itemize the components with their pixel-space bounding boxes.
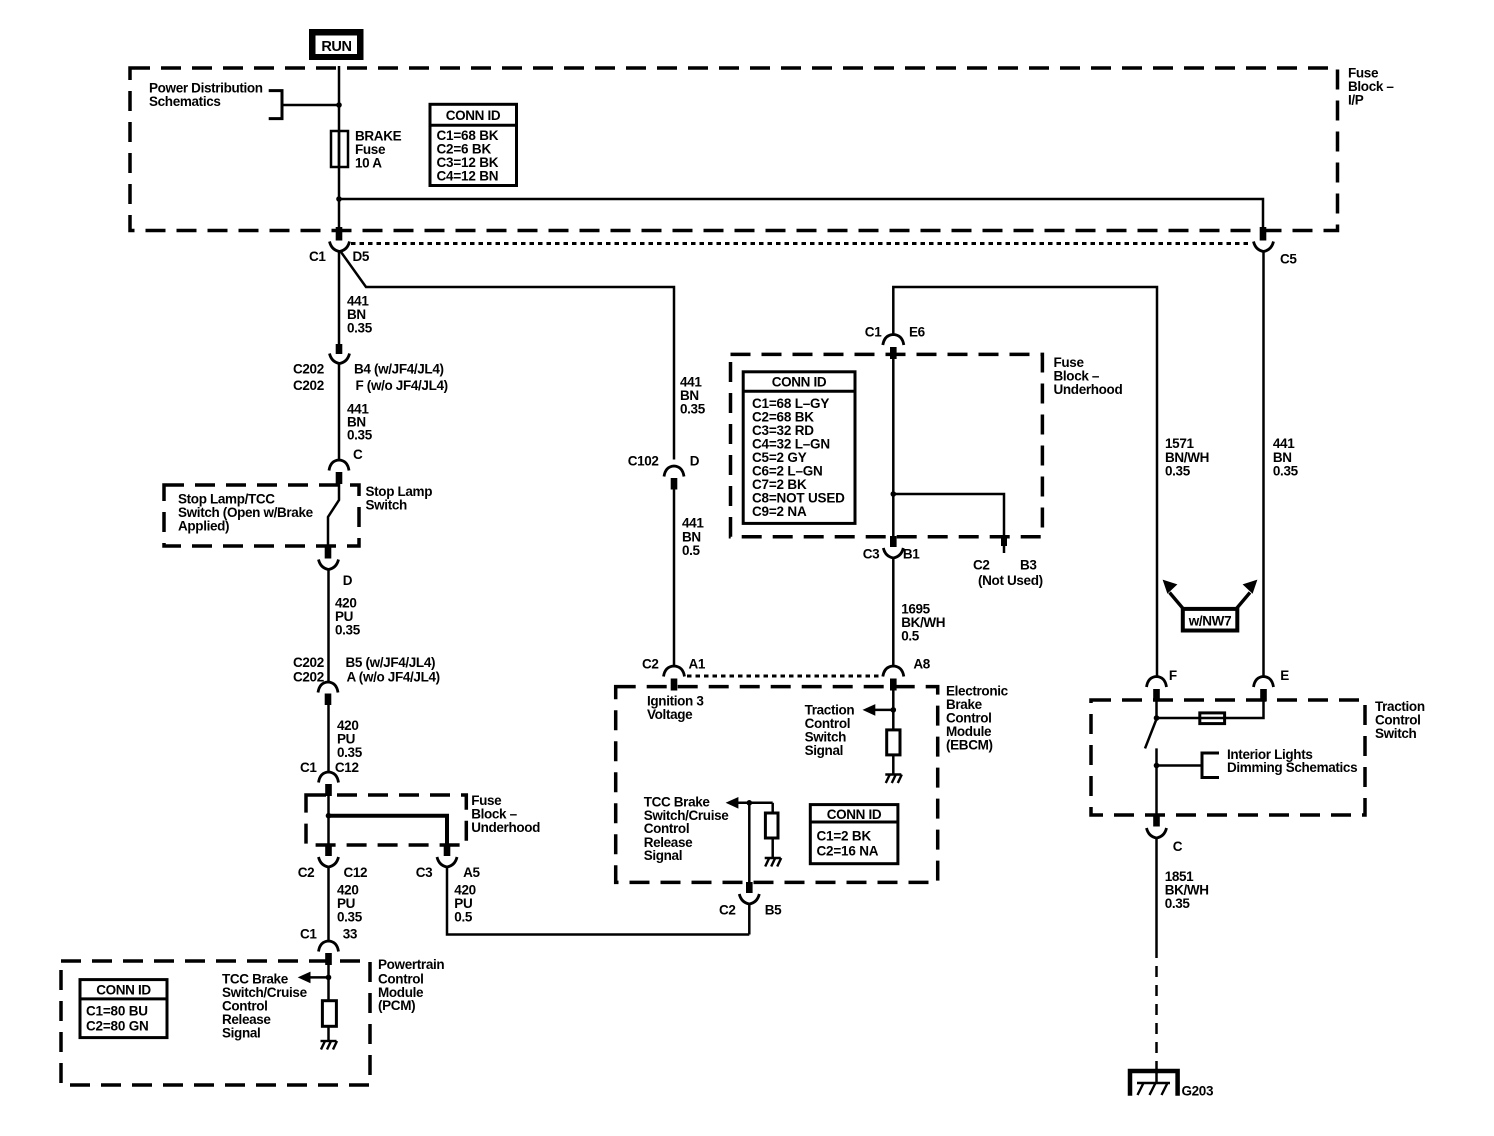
svg-text:Underhood: Underhood (471, 820, 540, 835)
svg-text:0.35: 0.35 (1273, 464, 1299, 479)
fuse BRAKE 10 A (331, 131, 348, 167)
svg-text:A8: A8 (913, 656, 930, 671)
connector C202 pin B5/A (293, 655, 440, 705)
connector C2 pin C12 (exit fuse block) (298, 845, 368, 880)
svg-text:0.35: 0.35 (1165, 464, 1191, 479)
label Power Distribution Schematics (149, 81, 263, 110)
svg-text:A (w/o JF4/JL4): A (w/o JF4/JL4) (347, 670, 440, 685)
wire: fuse output across top to right side (339, 199, 1263, 228)
svg-text:0.35: 0.35 (347, 321, 373, 336)
Fuse Block - Underhood (right) dashed box (731, 354, 1043, 536)
connector C1 pin A8 into EBCM (883, 656, 931, 690)
wire: D5 branch diagonal to middle column (341, 252, 674, 460)
Fuse Block - I/P dashed enclosure (130, 68, 1338, 231)
connector C102 pin D (628, 453, 700, 489)
wire: stub to C2/B3 not used (893, 494, 1004, 553)
wire 441 BN 0.35 (C202 to C) (338, 364, 341, 460)
node: junction at TCC arrow tap (747, 800, 753, 806)
connector D below stop lamp switch (319, 546, 353, 588)
svg-text:33: 33 (343, 927, 358, 942)
node: junction at interior lights tap (1154, 763, 1160, 769)
ground (EBCM TCC) (765, 858, 782, 867)
wire 441 BN 0.5 (C102 to C2/A1) (673, 490, 676, 667)
svg-text:C2: C2 (719, 903, 736, 918)
svg-text:G203: G203 (1182, 1084, 1214, 1099)
svg-text:C1: C1 (309, 249, 326, 264)
svg-text:C202: C202 (293, 655, 324, 670)
svg-text:C3: C3 (863, 547, 880, 562)
wire: bus inside left underhood fuse block (327, 784, 330, 846)
Traction Control Switch dashed box (1091, 700, 1365, 815)
label TCC Brake Switch/Cruise Control Release Signal (PCM) (222, 972, 308, 1041)
svg-text:Signal: Signal (222, 1026, 260, 1041)
svg-text:0.5: 0.5 (682, 543, 701, 558)
wire 1695 BK/WH 0.5 (B1 to A8) (892, 558, 895, 666)
arrow: w/NW7 applies to 1571 wire (1163, 580, 1183, 609)
svg-text:A5: A5 (463, 865, 480, 880)
svg-text:0.5: 0.5 (454, 910, 473, 925)
label 1851 BK/WH 0.35 (1165, 869, 1209, 911)
label Interior Lights Dimming Schematics (1227, 747, 1357, 775)
svg-text:I/P: I/P (1348, 93, 1364, 108)
svg-text:C202: C202 (293, 362, 324, 377)
connector row dotted line C1..C5 (351, 242, 1252, 245)
arrow: TCC brake switch signal inside EBCM (735, 802, 773, 805)
svg-text:Underhood: Underhood (1054, 382, 1123, 397)
node: junction to B3 stub (891, 491, 897, 497)
connector E into traction control switch (1254, 668, 1290, 702)
arrow: w/NW7 applies to 441 wire (1237, 580, 1258, 609)
w/NW7 option tag box (1181, 607, 1240, 633)
svg-text:0.35: 0.35 (347, 428, 373, 443)
wire: bracket to junction (282, 104, 339, 107)
svg-text:0.5: 0.5 (901, 629, 920, 644)
label Fuse Block - Underhood (1054, 355, 1123, 397)
wire: link F to E inside switch (1157, 702, 1264, 719)
svg-text:Switch: Switch (1375, 726, 1417, 741)
svg-text:C9=2 NA: C9=2 NA (752, 504, 807, 519)
svg-text:C: C (1173, 839, 1183, 854)
connector row dotted line A1..A8 (687, 675, 880, 678)
svg-text:C2: C2 (642, 656, 659, 671)
wire 420 PU 0.35 (D to C202) (327, 570, 330, 682)
wire: E6 drop inside fuse block (892, 359, 895, 537)
svg-text:Switch: Switch (366, 497, 408, 512)
bracket: Power Distribution Schematics reference (269, 91, 282, 119)
wire 441 BN 0.35 (C5 to E) (1262, 252, 1265, 677)
wire: resistor to ground (892, 755, 895, 775)
svg-text:C2: C2 (298, 865, 315, 880)
switch blade (stop lamp switch) (328, 484, 339, 546)
label 441 BN 0.35 (middle column) (680, 374, 706, 416)
svg-text:C2: C2 (973, 558, 990, 573)
svg-text:E6: E6 (909, 325, 926, 340)
svg-text:Signal: Signal (805, 743, 843, 758)
wire: tap to interior lights bracket (1157, 764, 1203, 767)
label 441 BN 0.35 (347, 402, 373, 443)
svg-text:A1: A1 (689, 656, 706, 671)
connector C2 pin B5 (exit EBCM) (719, 882, 782, 918)
svg-text:Dimming Schematics: Dimming Schematics (1227, 760, 1357, 775)
svg-text:C202: C202 (293, 378, 324, 393)
resistor (traction switch) (1200, 713, 1225, 724)
svg-text:Signal: Signal (644, 848, 682, 863)
resistor (EBCM traction input) (887, 730, 900, 755)
label Electronic Brake Control Module (EBCM) (946, 684, 1009, 753)
svg-text:CONN ID: CONN ID (446, 108, 501, 123)
svg-text:CONN ID: CONN ID (827, 807, 882, 822)
label TCC Brake Switch/Cruise Control Release Signal (EBCM) (644, 795, 730, 864)
svg-text:Applied): Applied) (178, 519, 229, 534)
svg-text:C202: C202 (293, 670, 324, 685)
CONN ID table (Fuse Block Underhood) (743, 372, 855, 524)
Powertrain Control Module (PCM) dashed box (61, 961, 370, 1085)
label 420 PU 0.35 (337, 883, 363, 925)
bracket: Interior Lights Dimming Schematics reference (1202, 753, 1219, 778)
svg-text:D: D (690, 453, 700, 468)
resistor (PCM input) (322, 1001, 336, 1027)
arrow: traction control switch signal (872, 709, 893, 712)
connector C1 pin C12 into underhood fuse block (300, 760, 359, 796)
node: junction at traction signal arrow (891, 707, 897, 713)
label 1695 BK/WH 0.5 (901, 602, 945, 644)
svg-text:w/NW7: w/NW7 (1188, 614, 1232, 629)
label 420 PU 0.35 (335, 596, 361, 638)
svg-text:C2=80 GN: C2=80 GN (86, 1018, 149, 1033)
svg-text:CONN ID: CONN ID (772, 374, 827, 389)
svg-text:CONN ID: CONN ID (96, 983, 151, 998)
connector C3 pin B1 (exit fuse block) (863, 536, 921, 562)
svg-text:(PCM): (PCM) (378, 998, 415, 1013)
svg-text:0.35: 0.35 (337, 910, 363, 925)
wire: hidden run to G203 (dashed) (1155, 947, 1158, 1062)
RUN ignition-switch feed box (309, 29, 364, 60)
svg-text:C12: C12 (335, 760, 359, 775)
wire: junction down to C2/B5 (748, 803, 751, 883)
svg-text:B5: B5 (765, 903, 782, 918)
connector F into traction control switch (1147, 668, 1177, 702)
switch blade (traction switch, open) (1145, 719, 1157, 748)
wire: branch to resistor (771, 803, 774, 813)
svg-text:(Not Used): (Not Used) (978, 573, 1043, 588)
wire: switch lower pole (1155, 748, 1158, 817)
label Ignition 3 Voltage (647, 693, 704, 722)
svg-text:C1: C1 (300, 760, 317, 775)
connector C3 pin A5 (exit fuse block) (416, 845, 481, 880)
svg-text:0.35: 0.35 (1165, 896, 1191, 911)
Stop Lamp/TCC Switch dashed box (164, 485, 359, 546)
arrow: TCC brake switch signal into PCM (308, 976, 329, 979)
svg-text:C1=2 BK: C1=2 BK (817, 829, 872, 844)
wire 1851 BK/WH 0.35 (1155, 838, 1158, 947)
wire: B5 down to cross link (748, 904, 751, 935)
node: junction at switch top (1154, 715, 1160, 721)
svg-text:D: D (343, 573, 353, 588)
label 441 BN 0.35 (347, 294, 373, 336)
wire 441 BN 0.35 (C1 to C202) (338, 252, 341, 346)
connector C1 pin 33 into PCM (300, 927, 358, 965)
connector C5 (right) (1254, 227, 1298, 267)
svg-text:Schematics: Schematics (149, 94, 221, 109)
svg-text:C5: C5 (1280, 252, 1297, 267)
wire 420 PU 0.35 (C2/C12 to C1/33) (327, 867, 330, 941)
label Fuse Block - Underhood (471, 793, 540, 835)
label Traction Control Switch Signal (805, 702, 855, 758)
wire: E6 top link to 1571 drop (893, 287, 1157, 677)
ground G203 (1130, 1071, 1214, 1099)
svg-text:RUN: RUN (321, 39, 351, 55)
label Traction Control Switch (1375, 699, 1425, 741)
svg-text:BN: BN (682, 529, 701, 544)
svg-text:C3: C3 (416, 865, 433, 880)
svg-text:C12: C12 (344, 865, 368, 880)
svg-text:C: C (353, 447, 363, 462)
svg-text:D5: D5 (353, 249, 370, 264)
svg-text:Powertrain: Powertrain (378, 957, 444, 972)
label Powertrain Control Module (PCM) (378, 957, 444, 1013)
connector C2 pin A1 into EBCM (642, 656, 706, 690)
wire: A8 drop inside EBCM (892, 691, 895, 730)
svg-text:B5 (w/JF4/JL4): B5 (w/JF4/JL4) (346, 655, 436, 670)
svg-text:10 A: 10 A (355, 156, 382, 171)
svg-text:B1: B1 (903, 547, 920, 562)
CONN ID table (EBCM) (810, 805, 898, 864)
svg-text:0.35: 0.35 (337, 745, 363, 760)
CONN ID table (PCM) (80, 980, 167, 1038)
svg-text:0.35: 0.35 (680, 401, 706, 416)
node: junction at PCM arrow tap (326, 975, 332, 981)
connector C below traction switch (1147, 816, 1183, 854)
wire: PCM internal drop (327, 963, 330, 1001)
Electronic Brake Control Module (EBCM) dashed box (616, 687, 938, 883)
label 441 BN 0.35 (right) (1273, 436, 1299, 478)
svg-text:C1: C1 (300, 927, 317, 942)
svg-text:441: 441 (682, 516, 704, 531)
svg-text:Voltage: Voltage (647, 707, 693, 722)
svg-text:C2=16 NA: C2=16 NA (817, 844, 879, 859)
label BRAKE Fuse 10 A (355, 129, 402, 171)
svg-text:(EBCM): (EBCM) (946, 738, 993, 753)
wire: RUN down to C1 pin (338, 66, 341, 228)
svg-text:C4=12 BN: C4=12 BN (437, 169, 499, 184)
ground (EBCM traction) (885, 775, 902, 784)
wire 420 PU 0.35 (C202 to C1/C12) (327, 705, 330, 772)
label Stop Lamp Switch (366, 484, 433, 512)
connector C into stop lamp switch (329, 447, 363, 484)
resistor (EBCM TCC) (765, 813, 778, 838)
connector C1 pin D5 (309, 227, 370, 264)
node: junction at fuse output (336, 196, 342, 202)
label 420 PU 0.35 (337, 718, 363, 760)
connector C202 pin B4/F (293, 344, 448, 393)
svg-text:0.35: 0.35 (335, 623, 361, 638)
svg-text:C1=80 BU: C1=80 BU (86, 1004, 148, 1019)
svg-text:F (w/o JF4/JL4): F (w/o JF4/JL4) (356, 378, 448, 393)
Fuse Block - Underhood (left) dashed box (306, 795, 466, 845)
svg-text:F: F (1169, 668, 1177, 683)
label 1571 BN/WH 0.35 (1165, 436, 1209, 478)
ground (PCM internal) (321, 1041, 338, 1050)
svg-text:C102: C102 (628, 453, 659, 468)
label Fuse Block - I/P (1348, 66, 1394, 108)
wire: resistor to ground (771, 838, 774, 858)
svg-text:B4 (w/JF4/JL4): B4 (w/JF4/JL4) (354, 362, 444, 377)
connector C1 pin E6 into underhood fuse block (865, 325, 926, 359)
wire: resistor to ground (327, 1026, 330, 1041)
label 420 PU 0.5 (454, 883, 475, 925)
label C2 B3 (Not Used) (973, 558, 1043, 588)
node: junction at power distribution tap (336, 102, 342, 108)
label Stop Lamp/TCC Switch (Open w/Brake Applied) (178, 492, 314, 534)
svg-text:E: E (1280, 668, 1289, 683)
wire 420 PU 0.5 (C3/A5 to C2/B5) (447, 867, 749, 935)
label 441 BN 0.5 (682, 516, 704, 559)
wire: F pin down to junction (1155, 702, 1158, 720)
CONN ID table (Fuse Block I/P) (430, 104, 517, 185)
svg-text:B3: B3 (1020, 558, 1037, 573)
svg-text:C1: C1 (865, 325, 882, 340)
